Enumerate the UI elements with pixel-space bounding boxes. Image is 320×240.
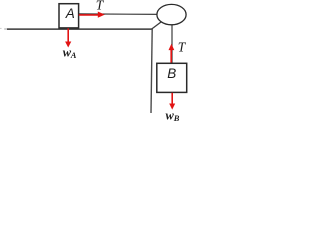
pulley: [157, 4, 186, 24]
tension arrow T on B: [169, 44, 175, 64]
label w_B: [166, 109, 180, 123]
svg-text:B: B: [167, 66, 176, 81]
svg-text:A: A: [65, 6, 75, 21]
wire: left edge tick: [0, 27, 2, 29]
label w_A: [63, 46, 77, 60]
block B: [157, 63, 187, 92]
wire: pulley bracket diagonal: [152, 16, 169, 29]
tension arrow T on A: [79, 12, 105, 18]
block A: [59, 4, 79, 28]
wire: table vertical edge: [151, 28, 152, 113]
wire: string from A to pulley: [79, 13, 162, 16]
weight arrow w_B: [169, 93, 175, 110]
wire: string from pulley down to B: [171, 20, 173, 63]
svg-text:A: A: [70, 50, 77, 60]
svg-text:B: B: [173, 113, 180, 123]
weight arrow w_A: [65, 28, 71, 47]
wire: table top surface: [7, 28, 152, 30]
